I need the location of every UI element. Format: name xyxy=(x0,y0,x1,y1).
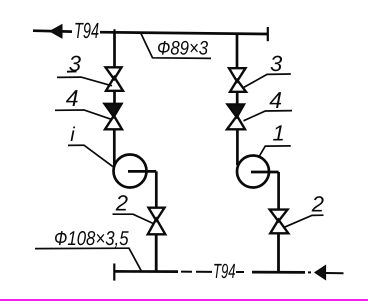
wire valve2 right to bottom pipe xyxy=(277,233,280,272)
text label 1 left (i) xyxy=(70,124,75,146)
wire bottom pipe dash b xyxy=(196,271,212,273)
leader label 2 right xyxy=(285,215,324,227)
arrow flow direction top (points left) xyxy=(50,25,62,38)
wire pump1 outlet drop xyxy=(155,171,158,207)
wire bottom pipe segment 1 xyxy=(114,270,178,273)
svg-text:3: 3 xyxy=(270,51,283,76)
svg-text:4: 4 xyxy=(269,87,282,113)
text phi108x3.5 xyxy=(54,228,129,250)
leader label 3 left xyxy=(57,77,112,86)
wire pump right outlet drop xyxy=(277,172,280,209)
node top pipe right end cap xyxy=(267,27,269,41)
text label 4 right xyxy=(269,87,282,113)
text label 4 left xyxy=(66,85,79,111)
wire valve4 left to pump xyxy=(113,129,116,165)
wire valve3-valve4 left connector xyxy=(113,91,116,104)
wire pump1 outlet horizontal xyxy=(128,170,156,173)
text label 3 left xyxy=(69,51,82,76)
leader label 4 left xyxy=(55,110,112,120)
wire bottom pipe segment 2 xyxy=(236,271,244,273)
arrow flow direction bottom (points left) xyxy=(315,266,326,280)
pump P1 right (circle) xyxy=(237,156,269,188)
text label 2 right xyxy=(311,192,324,217)
node junction tick left branch xyxy=(113,29,115,34)
valve 3 right (gate valve) xyxy=(229,68,246,92)
wire bottom pipe dot xyxy=(308,271,311,273)
leader label 1 left xyxy=(68,145,113,166)
valve 2 right xyxy=(270,210,289,234)
svg-text:i: i xyxy=(70,124,75,146)
svg-text:4: 4 xyxy=(66,85,79,111)
wire bottom pipe dash a xyxy=(181,271,192,273)
wire right branch drop xyxy=(236,34,239,68)
node bottom pipe left end cap xyxy=(113,264,115,281)
pump P1 left (circle) xyxy=(114,155,147,188)
text phi89x3 xyxy=(157,38,208,60)
text label 2 left xyxy=(115,191,128,216)
svg-text:Т94: Т94 xyxy=(213,260,236,283)
svg-text:Ф108×3,5: Ф108×3,5 xyxy=(54,228,129,250)
text label 1 right xyxy=(273,121,285,146)
text label 3 right xyxy=(270,51,283,76)
svg-text:Т94: Т94 xyxy=(74,18,99,43)
wire valve3-valve4 right connector xyxy=(236,92,239,105)
valve 4 left (check valve, filled top) xyxy=(105,104,123,130)
svg-text:1: 1 xyxy=(273,121,285,146)
valve 4 right (check valve, filled top) xyxy=(227,105,245,130)
wire valve2 left to bottom pipe xyxy=(155,234,158,272)
text T94 top xyxy=(73,18,100,43)
wire top pipe left segment xyxy=(33,29,72,33)
leader label phi89x3 xyxy=(141,34,211,59)
svg-text:Ф89×3: Ф89×3 xyxy=(157,38,208,60)
leader label 4 right xyxy=(244,111,293,121)
svg-text:2: 2 xyxy=(115,191,128,216)
wire bottom pipe segment 3 xyxy=(252,271,305,274)
wire top pipe right segment xyxy=(100,32,268,34)
leader label 1 right xyxy=(259,146,291,157)
leader label 3 right xyxy=(244,74,291,87)
wire separator line (magenta) xyxy=(0,299,368,301)
wire valve4 right to pump xyxy=(236,129,239,165)
leader label 2 left xyxy=(113,214,154,223)
valve 2 left xyxy=(148,208,166,235)
wire pump right outlet horizontal xyxy=(251,171,279,174)
text T94 bottom xyxy=(212,260,236,283)
wire bottom pipe tail xyxy=(326,272,344,274)
wire left branch drop xyxy=(113,33,116,67)
leader underline 3 left xyxy=(67,71,77,73)
valve 3 left (gate valve) xyxy=(106,67,124,91)
svg-text:2: 2 xyxy=(311,192,324,217)
leader label phi108x3.5 xyxy=(35,248,142,271)
svg-text:3: 3 xyxy=(69,51,82,76)
